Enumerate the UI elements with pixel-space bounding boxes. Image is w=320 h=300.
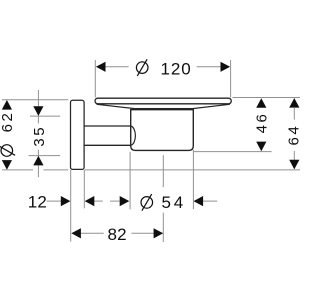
svg-text:64: 64 [285,124,300,146]
dim line 12 [47,200,62,202]
arrow dim 82 left [71,228,81,238]
ext line plate bottom right (dim 64) [85,169,300,171]
dish underside taper [97,104,230,108]
svg-text:120: 120 [161,60,192,79]
arrows [2,62,300,239]
cup (soap dish holder ring) [131,110,194,151]
ext line dish left (dim 120) [94,60,96,97]
dim line 64 segments [293,108,295,120]
wall plate (escutcheon) side view [71,100,85,169]
arrow dim 64 bottom [289,160,299,170]
arrow dim 120 left [96,62,106,72]
ext line plate top (dim 62) [2,99,68,101]
svg-text:35: 35 [31,125,48,147]
ext line cup left (dim 54) [129,152,131,210]
arrow dim 82 right [154,228,164,238]
arm top edge [84,125,131,127]
ext line cup bottom (dim 46) [194,151,272,153]
ext line plate bottom left (dim 62) [2,169,33,171]
soap dish holder object [71,98,232,169]
dim line 54 [110,200,120,202]
ext line wall face (dims 12/82) [70,170,72,242]
arrow dim 120 right [221,62,231,72]
arrow dim 54 right [194,196,204,206]
arm nose arc on cup [131,126,135,145]
diameter symbol dim 62 (rotated) [0,145,15,157]
ext line dish top right (dims 46/64) [233,97,301,99]
ext line plate front (dim 12) [83,170,85,208]
diameter symbol dim 120 [136,59,148,76]
arrow dim 46 top [256,98,266,108]
centerline cup (dim 82 right ext) [162,155,164,187]
dim line 120 [105,66,129,68]
extension/dimension grey lines [2,60,300,242]
svg-text:54: 54 [162,193,187,212]
dim line 82 [80,232,103,234]
diameter symbol dim 54 [141,194,153,211]
svg-text:12: 12 [28,193,47,212]
dim line 35 vertical [37,90,39,106]
svg-text:46: 46 [254,112,271,134]
svg-text:62: 62 [0,111,16,133]
ext line 35 bottom [29,155,61,157]
arrow dim 12 left [61,196,71,206]
arrow dim 64 top [289,98,299,108]
svg-text:82: 82 [108,225,127,244]
arrow dim 35 bottom [33,156,43,166]
ext line dish right (dim 120) [230,60,232,97]
ext line 35 top [30,115,60,117]
arrow dim 62 top [2,100,12,110]
arm bottom edge [84,144,131,146]
arrow dim 46 bottom [256,142,266,152]
dish rim [95,98,231,104]
ext line cup right (dim 54) [192,150,194,210]
arrow dim 35 top [33,106,43,116]
arrow dim 62 bottom [2,160,12,170]
arrow dim 54 left [120,196,130,206]
arrow dim 12 right [85,196,95,206]
